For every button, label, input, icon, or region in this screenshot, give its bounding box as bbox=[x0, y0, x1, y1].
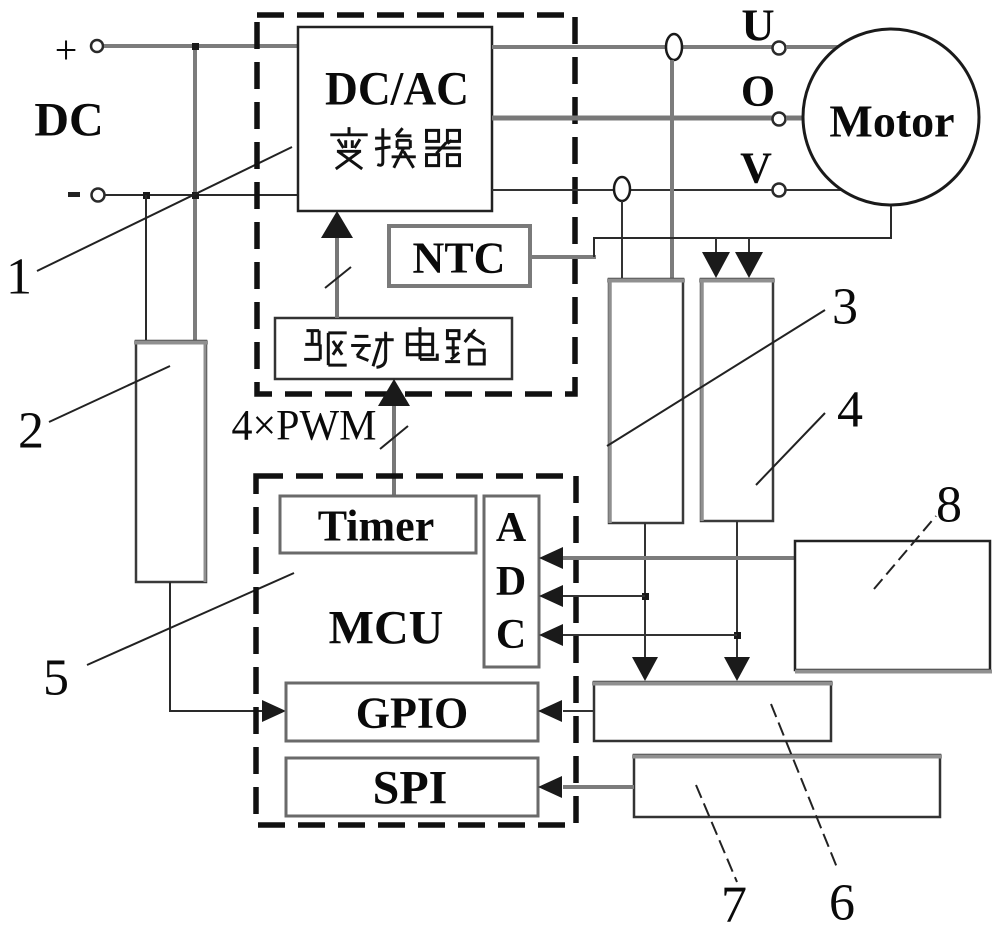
minus terminal bbox=[68, 189, 105, 202]
wire: O phase from DC/AC to motor bbox=[492, 116, 772, 121]
arrow: driver to DC/AC bbox=[321, 211, 353, 318]
driver block label 驱动电路 (drawn glyphs) bbox=[304, 327, 484, 367]
Timer block bbox=[280, 496, 476, 553]
wire: NTC net / motor return at y238 bbox=[530, 206, 891, 257]
svg-text:GPIO: GPIO bbox=[356, 689, 468, 738]
callout line 3 bbox=[607, 310, 825, 446]
label 2 bbox=[18, 403, 44, 460]
current sensor on V phase bbox=[614, 177, 630, 279]
label 3 bbox=[832, 279, 858, 336]
svg-text:DC/AC: DC/AC bbox=[325, 63, 469, 116]
svg-text:U: U bbox=[741, 0, 774, 51]
label 4 bbox=[837, 382, 863, 439]
sensor block 4 bbox=[699, 279, 775, 521]
驱 bbox=[304, 331, 347, 366]
node: junction on minus rail at x195 bbox=[192, 192, 199, 199]
svg-text:7: 7 bbox=[721, 877, 747, 934]
wire: DC plus rail bbox=[104, 44, 298, 48]
svg-text:DC: DC bbox=[34, 94, 103, 147]
svg-text:4×PWM: 4×PWM bbox=[232, 403, 377, 450]
svg-text:5: 5 bbox=[43, 650, 69, 707]
NTC block bbox=[389, 226, 530, 286]
dashed border: power module (top) bbox=[257, 15, 575, 394]
电 bbox=[407, 327, 437, 359]
wire: ADC channel A from block 8 bbox=[539, 547, 795, 569]
svg-text:6: 6 bbox=[829, 875, 855, 932]
svg-text:MCU: MCU bbox=[329, 602, 444, 655]
label 5 bbox=[43, 650, 69, 707]
wire: vertical from minus rail to capacitor 2 bbox=[145, 195, 147, 341]
svg-text:2: 2 bbox=[18, 403, 44, 460]
svg-text:1: 1 bbox=[6, 249, 32, 306]
wire: block 4 output down to block 6 bbox=[724, 521, 750, 681]
wire: ADC channel D from block3 drop bbox=[539, 585, 645, 607]
wire: DC minus rail bbox=[105, 194, 298, 196]
arrow: timer PWM to driver bbox=[378, 379, 410, 496]
wire: vertical from plus rail to capacitor 2 bbox=[193, 46, 197, 341]
wire: block 3 output down to block 6 bbox=[632, 523, 658, 681]
callout line 8 bbox=[874, 516, 936, 589]
terminal O bbox=[741, 67, 804, 126]
dashed border: MCU bbox=[256, 476, 576, 825]
svg-text:D: D bbox=[496, 559, 526, 605]
motor M bbox=[803, 29, 979, 205]
label 7 bbox=[721, 877, 747, 934]
callout line 1 bbox=[37, 147, 292, 271]
label 6 bbox=[829, 875, 855, 932]
wire: drop into sensor 4 right bbox=[735, 238, 763, 278]
node: junction on minus rail at x146 bbox=[143, 192, 150, 199]
DC/AC block label 变换器 (drawn glyphs) bbox=[330, 127, 460, 169]
sensor block 3 bbox=[607, 279, 685, 523]
svg-text:4: 4 bbox=[837, 382, 863, 439]
svg-text:SPI: SPI bbox=[373, 762, 448, 815]
node: junction on plus rail bbox=[192, 43, 199, 50]
动 bbox=[351, 332, 394, 368]
terminal V bbox=[740, 144, 843, 197]
block 7 bbox=[632, 755, 942, 817]
路 bbox=[445, 329, 484, 364]
plus terminal bbox=[55, 28, 103, 73]
svg-text:8: 8 bbox=[936, 477, 962, 534]
svg-text:V: V bbox=[740, 144, 772, 193]
svg-text:O: O bbox=[741, 67, 775, 116]
svg-text:Motor: Motor bbox=[829, 96, 954, 147]
GPIO block bbox=[286, 683, 538, 741]
wire: V phase from DC/AC to motor bbox=[492, 189, 772, 191]
label 1 bbox=[6, 249, 32, 306]
DC/AC converter block U1 bbox=[298, 27, 492, 211]
block 6 bbox=[592, 682, 833, 741]
callout line 6 bbox=[771, 704, 838, 870]
变 bbox=[330, 127, 367, 169]
SPI block bbox=[286, 758, 538, 816]
label 8 bbox=[936, 477, 962, 534]
wire: from block 2 bottom to GPIO left bbox=[170, 582, 278, 711]
callout line 5 bbox=[87, 573, 294, 665]
svg-text:+: + bbox=[55, 28, 78, 73]
ADC block bbox=[484, 496, 539, 667]
wire: ADC channel C from block4 drop bbox=[539, 624, 737, 646]
器 bbox=[425, 130, 460, 165]
block 8 bbox=[795, 541, 992, 672]
capacitor block 2 bbox=[134, 341, 208, 582]
node: junction on block4 drop bbox=[734, 632, 741, 639]
callout line 7 bbox=[696, 785, 737, 882]
svg-text:A: A bbox=[496, 505, 527, 551]
callout line 2 bbox=[49, 366, 170, 422]
wire: block 6 to GPIO bbox=[538, 700, 594, 722]
terminal U bbox=[741, 0, 838, 55]
driver circuit block bbox=[275, 318, 512, 379]
svg-text:3: 3 bbox=[832, 279, 858, 336]
arrowhead into GPIO left bbox=[262, 700, 286, 722]
svg-text:Timer: Timer bbox=[318, 502, 435, 551]
label 4xPWM bbox=[232, 403, 377, 450]
svg-text:C: C bbox=[496, 612, 526, 658]
wire: block 7 to SPI bbox=[538, 776, 634, 798]
callout line 4 bbox=[756, 413, 825, 485]
DC label bbox=[34, 94, 103, 147]
svg-text:NTC: NTC bbox=[413, 234, 506, 283]
wire: drop into sensor 4 left bbox=[702, 238, 730, 278]
current sensor on U phase bbox=[666, 34, 682, 279]
node: junction on block3 drop bbox=[642, 593, 649, 600]
wire: U phase from DC/AC to motor bbox=[492, 45, 772, 49]
换 bbox=[375, 128, 416, 168]
MCU label bbox=[329, 602, 444, 655]
